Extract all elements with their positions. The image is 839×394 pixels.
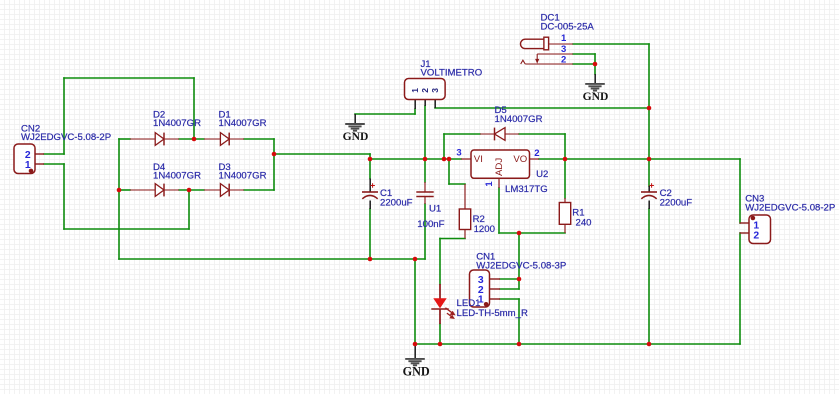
svg-text:GND: GND	[343, 130, 369, 143]
svg-text:2: 2	[420, 88, 430, 93]
wire VO net horizontal	[539, 158, 740, 160]
junction J1 pin3 DC1	[647, 106, 652, 111]
J1 pin2 stub	[424, 100, 426, 107]
connector CN3	[740, 215, 771, 244]
wire top loop right vertical	[193, 78, 195, 139]
wire CN3 pin2 down to rail	[739, 233, 741, 344]
svg-text:GND: GND	[583, 90, 609, 103]
svg-text:VI: VI	[474, 154, 483, 165]
wire D5 left horizontal	[444, 133, 480, 135]
ground GND (DC1)	[585, 84, 605, 91]
wire CN1 pin1	[500, 298, 519, 300]
svg-text:240: 240	[576, 218, 592, 229]
capacitor C2 (polarized)	[641, 192, 657, 199]
wire C1 top vertical	[369, 154, 371, 179]
junction CN1 pin3	[517, 277, 522, 282]
wire bridge right vertical	[273, 139, 275, 190]
wire top loop horizontal	[64, 77, 194, 79]
regulator U2 LM317	[461, 150, 539, 188]
wire J1 pin1 to GND	[355, 113, 415, 115]
CN3 pin1 marker	[751, 216, 756, 221]
C2 bottom lead dark	[648, 201, 650, 210]
junction bridge output	[272, 152, 277, 157]
wire CN1 pin3	[500, 278, 519, 280]
svg-text:DC-005-25A: DC-005-25A	[541, 21, 595, 32]
wire bridge output to C1	[274, 153, 370, 155]
wire C1 bottom vertical	[369, 209, 371, 259]
wire CN2 pin1 down	[63, 164, 65, 229]
CN2 pin1 marker	[29, 169, 34, 174]
svg-text:WJ2EDGVC-5.08-3P: WJ2EDGVC-5.08-3P	[476, 260, 566, 271]
resistor R2	[459, 184, 470, 239]
svg-text:2: 2	[561, 54, 566, 65]
diode D1	[204, 133, 244, 146]
svg-text:ADJ: ADJ	[494, 158, 505, 176]
wire D5 right horizontal	[519, 133, 565, 135]
junction DC1 gnd	[593, 62, 598, 67]
wire left ground rail	[119, 258, 425, 260]
wire CN1 pin1 down	[518, 299, 520, 344]
junction VI at R2	[447, 157, 452, 162]
ground GND (bottom rail)	[405, 359, 425, 365]
wire CN2 pin1 right	[44, 163, 64, 165]
diode D4	[130, 184, 179, 197]
junction C2 bottom	[647, 342, 652, 347]
junction CN1 pin1 rail	[517, 342, 522, 347]
svg-text:1: 1	[25, 160, 31, 171]
connector CN1	[470, 270, 501, 307]
junction D4 row left	[117, 188, 122, 193]
junction VI at U1	[423, 157, 428, 162]
wire D2-D1 middle	[179, 138, 204, 140]
wire D4 row left	[119, 189, 130, 191]
wire DC1 pin2 right	[573, 63, 595, 65]
resistor R1	[559, 198, 570, 233]
junction bridge top	[192, 137, 197, 142]
wire R1 top vertical	[564, 159, 566, 198]
wire CN2 pin2 to loop	[44, 153, 64, 155]
wire bridge left vertical	[118, 139, 120, 190]
C1 bottom lead dark	[369, 201, 371, 210]
C2 top lead dark	[648, 186, 650, 192]
diode D3	[204, 184, 244, 197]
wire VI net horizontal	[370, 158, 461, 160]
C1 plus sign	[370, 183, 375, 188]
gnd stub right	[594, 74, 596, 84]
svg-text:U1: U1	[429, 204, 441, 215]
connector CN2	[14, 144, 44, 174]
gnd stub middle	[354, 114, 356, 124]
svg-text:WJ2EDGVC-5.08-2P: WJ2EDGVC-5.08-2P	[21, 132, 111, 143]
svg-text:2200uF: 2200uF	[660, 197, 693, 208]
svg-text:2200uF: 2200uF	[380, 197, 413, 208]
junction LED bottom	[438, 342, 443, 347]
wire D1 cathode right	[244, 138, 274, 140]
svg-text:1N4007GR: 1N4007GR	[219, 170, 267, 181]
wire R2 to LED vertical	[439, 239, 441, 285]
diode D5	[480, 128, 519, 141]
junction gnd bottom rail	[413, 342, 418, 347]
wire C2 bottom vertical	[648, 209, 650, 344]
LED1 triangle	[433, 298, 446, 308]
capacitor U1	[416, 182, 433, 204]
wire D2 row left	[119, 138, 130, 140]
svg-text:1: 1	[410, 88, 420, 93]
wire U1 bottom down	[424, 204, 426, 259]
wire R2 top vertical	[448, 159, 450, 184]
wire D5 left vertical	[443, 134, 445, 159]
diode D2	[130, 133, 179, 146]
CN1 pin1 marker	[484, 302, 489, 307]
junction VI at D5	[442, 157, 447, 162]
wire R2 bottom horizontal	[440, 238, 465, 240]
svg-text:VOLTIMETRO: VOLTIMETRO	[421, 68, 483, 79]
wire ADJ to CN1 vertical	[518, 233, 520, 289]
J1 pin1 stub	[414, 100, 416, 110]
svg-text:100nF: 100nF	[417, 219, 444, 230]
svg-text:U2: U2	[536, 169, 548, 180]
wire DC1 gnd stub	[594, 64, 596, 74]
wire CN1 pin2	[500, 288, 519, 290]
wire ADJ down	[498, 188, 500, 233]
wire left gnd vertical	[414, 259, 416, 344]
J1 pin3 stub	[434, 100, 436, 109]
black pin stubs and component dark leads	[355, 74, 649, 359]
wire D5 right vertical	[564, 134, 566, 159]
wire J1 pin2 down	[424, 106, 426, 182]
junction VO at R1	[563, 157, 568, 162]
junction VO at C2	[647, 157, 652, 162]
led LED1	[431, 284, 448, 324]
wire D4-D3 middle	[179, 189, 204, 191]
svg-text:3: 3	[456, 147, 461, 158]
junction ADJ rail	[517, 231, 522, 236]
svg-text:1N4007GR: 1N4007GR	[219, 118, 267, 129]
wire R2 top horizontal	[449, 183, 465, 185]
wire DC1 right vertical	[648, 44, 650, 186]
wire D3 cathode right	[244, 189, 274, 191]
wire J1 pin1 down	[414, 109, 416, 114]
wire LED bottom vertical	[439, 324, 441, 344]
svg-text:1N4007GR: 1N4007GR	[495, 114, 543, 125]
svg-text:1N4007GR: 1N4007GR	[153, 118, 201, 129]
wire bottom ground rail	[415, 343, 740, 345]
WIRES (green)	[44, 44, 740, 344]
gnd stub bottom	[414, 344, 416, 359]
svg-text:GND: GND	[403, 364, 430, 378]
junction VI at C1	[368, 157, 373, 162]
svg-text:3: 3	[430, 88, 440, 93]
wire CN2 pin1 bottom horizontal	[64, 228, 189, 230]
wire up to D4-D3 junction	[188, 190, 190, 229]
junction C1 bottom	[368, 257, 373, 262]
capacitor C1 (polarized)	[362, 192, 378, 199]
svg-text:LED-TH-5mm_R: LED-TH-5mm_R	[457, 308, 528, 319]
C2 plus sign	[649, 183, 654, 188]
wire DC1 pin1 horizontal	[573, 43, 649, 45]
C1 top lead dark	[369, 179, 371, 193]
wire top loop left vertical	[63, 78, 65, 154]
svg-text:1: 1	[561, 33, 567, 44]
svg-text:1N4007GR: 1N4007GR	[153, 170, 201, 181]
connector J1	[405, 79, 446, 100]
svg-text:2: 2	[753, 231, 759, 242]
ground GND (under J1 pin1)	[345, 124, 365, 131]
DC1 switch arrowhead	[535, 59, 539, 64]
wire bridge left vertical lower	[118, 190, 120, 259]
junction bridge bottom	[187, 188, 192, 193]
svg-text:2: 2	[534, 148, 539, 159]
svg-text:WJ2EDGVC-5.08-2P: WJ2EDGVC-5.08-2P	[745, 202, 835, 213]
svg-text:VO: VO	[513, 154, 527, 165]
svg-text:1: 1	[484, 181, 495, 187]
svg-text:LM317TG: LM317TG	[505, 184, 548, 195]
LED1 emission arrows	[445, 308, 455, 319]
svg-text:1200: 1200	[474, 224, 495, 235]
wire R1 bottom to ADJ rail	[499, 232, 565, 234]
junction left rail gnd	[413, 257, 418, 262]
wire J1 pin3 horizontal	[435, 107, 649, 109]
wire CN3 right vertical down	[739, 159, 741, 223]
wire DC1 pin3 down	[594, 54, 596, 64]
dc jack DC1	[521, 37, 574, 64]
wire DC1 pin3 right	[573, 53, 595, 55]
